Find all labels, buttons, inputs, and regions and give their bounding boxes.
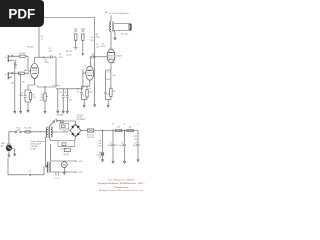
- label fuse: [24, 127, 32, 130]
- wire 6V6 cathode bottom: [106, 100, 111, 102]
- label Bk choke: [96, 152, 101, 159]
- svg-text:CC: Version 11 - 4/5/07: CC: Version 11 - 4/5/07: [108, 179, 135, 182]
- ground 6V6 grid leak: [94, 101, 96, 108]
- wire riser A: [46, 137, 47, 167]
- label R5: [74, 28, 78, 30]
- ground C7: [112, 159, 114, 164]
- bridge diode 3: [71, 133, 74, 136]
- wire V1A plate riser: [38, 27, 40, 57]
- wire fuse to PT: [31, 131, 47, 133]
- capacitor C8 filter: [123, 131, 126, 160]
- wire V1A cathode bottom: [25, 90, 31, 104]
- wire 6V6 grid leak: [94, 57, 96, 101]
- svg-text:22k: 22k: [129, 127, 132, 129]
- wire jack2 signal: [13, 72, 19, 74]
- capacitor C5 cathode bypass: [104, 70, 107, 100]
- ground volume pot: [44, 108, 46, 114]
- ground OT secondary: [114, 34, 116, 41]
- tube V1B envelope: [86, 66, 94, 80]
- resistor R3a cathode: [29, 90, 31, 102]
- transformer T2 primary coil: [110, 22, 111, 32]
- wire coupling cap to 6V6 grid: [94, 56, 107, 58]
- component R inside loop: [62, 143, 66, 146]
- label R7: [81, 28, 85, 30]
- label R10: [117, 127, 120, 129]
- label snubber upper: [63, 130, 66, 132]
- svg-text:6.3V 3A: 6.3V 3A: [30, 145, 37, 148]
- svg-text:1W: 1W: [98, 146, 101, 148]
- ground 6V6 cathode: [107, 102, 109, 108]
- label 120VAC: [1, 143, 6, 148]
- svg-text:PDF: PDF: [8, 6, 35, 21]
- label R3a: [32, 95, 36, 100]
- wire V1B cathode: [82, 80, 90, 86]
- ground grid leak 1: [14, 108, 16, 113]
- svg-text:gnd: gnd: [29, 171, 32, 173]
- wire V1B grid riser: [82, 69, 84, 89]
- resistor R11 rail: [127, 129, 134, 131]
- PDF badge: [0, 0, 44, 27]
- label C9: [133, 136, 137, 147]
- label col caps: [59, 92, 72, 101]
- wire riser B: [49, 144, 51, 162]
- bridge rectifier BR1 diamond: [70, 124, 81, 137]
- text website line: [114, 186, 129, 189]
- node plate junction: [43, 57, 44, 58]
- svg-text:C4: C4: [59, 92, 61, 94]
- svg-text:R6 1.5k: R6 1.5k: [66, 51, 72, 53]
- wire safety loop to winding: [31, 166, 44, 175]
- label X inline: [29, 171, 32, 173]
- svg-text:325 10H: 325 10H: [87, 137, 94, 139]
- svg-text:6.3: 6.3: [58, 178, 60, 180]
- label 220k: [45, 60, 49, 65]
- bridge diode 1: [71, 125, 74, 128]
- svg-text:⊕ Custom Magnetics: ⊕ Custom Magnetics: [109, 12, 130, 15]
- wire grid leak 1: [14, 62, 16, 108]
- label R2 68k: [24, 70, 27, 72]
- svg-text:220k: 220k: [59, 57, 63, 59]
- wire V1B grid stub: [83, 72, 86, 74]
- fuse col1: [101, 153, 104, 158]
- svg-text:5V 2A: 5V 2A: [30, 148, 36, 151]
- label In 1: [5, 57, 7, 59]
- svg-text:Sw1: Sw1: [16, 128, 20, 130]
- svg-text:6.3: 6.3: [54, 178, 56, 180]
- svg-text:Standby: Standby: [57, 114, 64, 117]
- label 6.3V b: [78, 172, 84, 174]
- svg-text:R1 68k: R1 68k: [20, 53, 26, 55]
- fuse F1: [25, 131, 31, 134]
- text rights line: [98, 189, 144, 192]
- transformer T1 primary: [46, 127, 47, 137]
- potentiometer VOL: [44, 87, 48, 108]
- label left pair: [66, 51, 72, 56]
- svg-text:22k: 22k: [91, 40, 94, 42]
- ground V1A cathode: [27, 104, 29, 113]
- wire plug neutral stub: [12, 149, 15, 151]
- svg-text:2k5: 2k5: [107, 94, 110, 96]
- ground col b: [62, 108, 64, 113]
- svg-text:100k: 100k: [81, 28, 85, 30]
- text copyright line: [97, 182, 145, 185]
- wire OT top lead: [110, 15, 112, 21]
- node rail b: [112, 130, 113, 131]
- label PT: [30, 140, 45, 151]
- svg-text:+6.3V: +6.3V: [78, 161, 84, 163]
- pilot lamp PL1: [61, 162, 67, 168]
- capacitor col c: [66, 89, 69, 109]
- bridge diode 2: [77, 125, 80, 128]
- wire B+ top horizontal: [44, 17, 95, 19]
- label output transformer: [105, 11, 129, 15]
- svg-text:16uF: 16uF: [133, 145, 137, 147]
- label 1M a: [11, 83, 14, 85]
- capacitor col b: [62, 89, 65, 109]
- tube V2 6V6 envelope: [107, 49, 115, 63]
- wire filter col1: [102, 131, 104, 153]
- svg-text:8 Ω spkr: 8 Ω spkr: [121, 34, 129, 36]
- capacitor C2a bypass: [24, 90, 27, 102]
- wire standby to bridge top: [58, 121, 76, 124]
- label 5V3: [77, 115, 84, 117]
- resistor R8 cathode: [110, 70, 112, 100]
- wire col a: [57, 89, 59, 109]
- jack J2 input: [8, 72, 13, 79]
- svg-text:305: 305: [113, 62, 116, 64]
- capacitor C7 filter: [112, 131, 115, 160]
- label bridge: [77, 117, 86, 121]
- capacitor tick above R7: [82, 31, 84, 32]
- svg-text:Triwatt.com: Triwatt.com: [114, 186, 129, 189]
- label C6: [96, 44, 101, 48]
- wire plug safety loop: [8, 158, 28, 175]
- svg-text:In: In: [5, 74, 7, 76]
- svg-text:C5 25u: C5 25u: [66, 54, 72, 56]
- label R3 100k: [27, 47, 34, 49]
- wire switch to fuse: [21, 131, 25, 133]
- svg-text:.022: .022: [92, 53, 96, 55]
- label In 2: [5, 74, 7, 76]
- wire jack1 to ground sym: [12, 60, 16, 64]
- wire jack1 signal: [13, 55, 19, 57]
- svg-text:C5: C5: [64, 92, 66, 94]
- component MOV: [63, 149, 70, 157]
- label volume pot: [40, 94, 44, 101]
- jack J1 input: [8, 55, 13, 62]
- svg-text:6V6: 6V6: [102, 46, 105, 48]
- label pot taper: [53, 84, 61, 87]
- wire V1A plate lead: [34, 57, 36, 63]
- label R11: [129, 127, 132, 129]
- label C1: [48, 48, 52, 53]
- label C3: [92, 53, 96, 55]
- wire bridge to choke: [81, 130, 87, 132]
- label speaker: [121, 34, 129, 36]
- node rail c: [124, 130, 125, 131]
- bridge diode 4: [77, 133, 80, 136]
- resistor R10 rail: [115, 129, 122, 131]
- ground col c: [66, 108, 68, 113]
- resistor R7: [82, 34, 84, 56]
- ground C8: [123, 159, 125, 164]
- label V1 12AX7: [35, 86, 38, 88]
- svg-text:22k: 22k: [134, 139, 137, 141]
- ground jack1 chassis: [14, 65, 17, 67]
- wire HV top diagonal: [49, 122, 53, 126]
- ground plug neutral: [13, 150, 15, 156]
- arrow heater bottom: [75, 171, 77, 173]
- svg-text:22n: 22n: [69, 100, 72, 102]
- svg-text:1W: 1W: [98, 157, 101, 159]
- svg-text:Pot Taper: Pot Taper: [53, 84, 61, 87]
- transformer T2 core: [112, 22, 113, 32]
- switch SW2 standby: [53, 118, 58, 122]
- label heater stubs: [54, 178, 60, 180]
- label switch: [16, 128, 20, 130]
- ground plug: [8, 151, 10, 157]
- tube V1A internals: [32, 68, 38, 74]
- capacitor C2 cathode bypass: [80, 86, 83, 99]
- ground C9: [137, 158, 139, 162]
- wire grid leak 2: [20, 73, 22, 108]
- svg-text:aud: aud: [40, 99, 43, 101]
- fuse HV: [60, 120, 63, 123]
- wire V1A cathode: [28, 79, 35, 91]
- wire mid bus: [56, 88, 83, 90]
- label after C1: [59, 54, 63, 59]
- label node C: [137, 124, 139, 126]
- wire B+ vertical x94.5: [94, 18, 96, 57]
- svg-text:4x 1N4007: 4x 1N4007: [77, 119, 86, 121]
- resistor R1 68k: [20, 55, 26, 57]
- svg-text:C9: C9: [135, 142, 137, 144]
- node 6V6 grid junction: [94, 56, 95, 57]
- label left of B+ line: [91, 37, 95, 42]
- wire V1B plate to coupling cap: [90, 57, 91, 67]
- component X inline: [29, 174, 31, 176]
- svg-text:25uF: 25uF: [106, 79, 110, 81]
- tube V1A envelope: [31, 64, 39, 79]
- label node B: [124, 124, 126, 126]
- svg-text:16uF: 16uF: [108, 145, 112, 147]
- label 360V: [113, 55, 123, 64]
- svg-text:+1W: +1W: [112, 75, 116, 77]
- arrow heater top: [75, 160, 77, 162]
- svg-text:68k: 68k: [24, 70, 27, 72]
- capacitor C1 coupling: [51, 55, 57, 87]
- svg-text:1.5k: 1.5k: [89, 91, 93, 93]
- svg-text:25: 25: [77, 91, 79, 93]
- svg-text:In: In: [5, 57, 7, 59]
- ground col a: [57, 108, 59, 113]
- connection X heater: [46, 165, 49, 168]
- label C7: [108, 143, 119, 148]
- svg-text:R12: R12: [134, 136, 137, 138]
- transformer T3 heater winding: [47, 162, 48, 172]
- wire plug to switch: [9, 132, 15, 145]
- svg-text:1W: 1W: [113, 91, 116, 93]
- svg-text:1M: 1M: [22, 82, 25, 84]
- svg-text:Fuse 2A: Fuse 2A: [24, 127, 32, 130]
- svg-text:.022: .022: [48, 50, 52, 52]
- bridge diode bars: [75, 125, 79, 137]
- svg-text:1.5k: 1.5k: [32, 97, 36, 99]
- capacitor C9 filter: [137, 131, 140, 159]
- plug P1: [6, 143, 12, 151]
- label 47k: [96, 34, 100, 38]
- wire B+ rail: [94, 130, 138, 132]
- label node A: [112, 123, 114, 126]
- transformer T1 secondary: [51, 127, 52, 137]
- label C2a: [19, 93, 24, 98]
- svg-text:16uF: 16uF: [119, 145, 123, 147]
- tube V1B internals: [87, 70, 93, 75]
- svg-text:100k: 100k: [74, 28, 78, 30]
- wire secondary-speaker loop: [114, 24, 131, 31]
- svg-text:- All rights reserved. Non-com: - All rights reserved. Non-commercial us…: [98, 189, 144, 192]
- wire PT mid to bridge left: [52, 131, 70, 133]
- resistor R4 cathode: [86, 86, 88, 99]
- label col1: [98, 141, 101, 148]
- resistor R2 68k: [19, 72, 25, 74]
- ground lamp: [63, 171, 65, 175]
- wire HV bottom diagonal: [49, 138, 58, 141]
- tube V2 internals: [108, 53, 114, 60]
- transformer T3 core: [49, 162, 52, 172]
- switch SW1 power: [15, 129, 21, 132]
- svg-text:100k: 100k: [45, 62, 49, 64]
- svg-text:GZ 5x D: GZ 5x D: [77, 115, 84, 117]
- svg-text:≈360V: ≈360V: [116, 55, 122, 57]
- svg-text:Custom Magnetics: Custom Magnetics: [30, 140, 45, 143]
- wire R1 to grid corner: [26, 56, 31, 71]
- svg-text:+6.3V: +6.3V: [78, 172, 84, 174]
- svg-text:220k: 220k: [96, 37, 100, 39]
- label standby: [57, 114, 64, 117]
- speaker jack: [129, 24, 132, 29]
- svg-text:Copyright Matthew / 5F1A McGra: Copyright Matthew / 5F1A McGraw - 2007 -: [97, 182, 145, 185]
- label R8 C5: [106, 71, 116, 96]
- label C8: [119, 143, 123, 148]
- node vol: [44, 86, 45, 87]
- wire OT primary bottom to 6V6 plate: [110, 32, 112, 50]
- wire OT secondary ground lead: [113, 31, 116, 34]
- wire 6V6 cathode: [106, 63, 112, 70]
- label 6.3V a: [78, 161, 84, 163]
- resistor R5: [74, 34, 78, 49]
- label V2 6V6: [102, 44, 105, 48]
- wire volume top: [38, 86, 56, 88]
- label R1 68k: [20, 53, 26, 55]
- capacitor C3 coupling: [92, 55, 94, 58]
- wire loop to bridge bottom: [74, 137, 77, 141]
- wire heater stubs: [56, 172, 59, 176]
- loop lower rectangle: [58, 141, 75, 147]
- ground grid leak 2: [19, 108, 21, 113]
- label 1M b: [22, 82, 25, 84]
- snubber loop upper: [60, 123, 69, 129]
- text version line: [108, 179, 135, 182]
- resistor RC choke: [87, 129, 93, 132]
- svg-text:470: 470: [107, 71, 110, 73]
- wire R2 to grid: [25, 73, 29, 74]
- svg-text:10k 2W: 10k 2W: [63, 154, 69, 156]
- label choke: [87, 134, 95, 139]
- svg-text:1M: 1M: [11, 83, 14, 85]
- label C2 R4: [76, 89, 92, 94]
- wire V1B cathode bottom: [82, 100, 88, 102]
- wire lamp ground stem: [63, 168, 65, 171]
- ground V1B cathode: [83, 102, 85, 108]
- capacitor tick above R5: [75, 31, 77, 32]
- wire winding to lamp bottom: [51, 171, 76, 173]
- svg-text:.02: .02: [40, 38, 43, 40]
- node rail a: [102, 130, 103, 131]
- svg-text:10k: 10k: [117, 127, 120, 129]
- wire winding to lamp top: [51, 160, 76, 162]
- ground filter col1: [101, 158, 103, 163]
- wire V1A plate node horizontal: [35, 56, 50, 58]
- label C4 .02: [40, 36, 43, 41]
- label NTC: [61, 148, 68, 150]
- svg-text:R3 100k: R3 100k: [27, 47, 34, 49]
- transformer T1 core: [48, 127, 51, 138]
